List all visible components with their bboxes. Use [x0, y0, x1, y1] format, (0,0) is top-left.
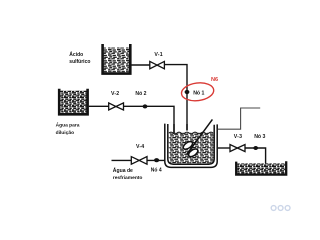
svg-text:N6: N6: [211, 77, 218, 83]
svg-text:Ácido: Ácido: [69, 51, 83, 58]
svg-text:Nó 4: Nó 4: [151, 168, 162, 174]
svg-text:resfriamento: resfriamento: [113, 175, 143, 181]
svg-text:V-2: V-2: [111, 91, 119, 97]
svg-text:V-4: V-4: [136, 144, 144, 150]
svg-text:Água para: Água para: [56, 122, 80, 129]
svg-text:Nó 3: Nó 3: [254, 134, 265, 140]
svg-text:Nó 2: Nó 2: [135, 91, 146, 97]
svg-text:V-3: V-3: [234, 134, 242, 140]
svg-text:Nó 1: Nó 1: [193, 90, 204, 96]
svg-text:sulfúrico: sulfúrico: [69, 59, 90, 65]
svg-text:V-1: V-1: [154, 52, 162, 58]
svg-text:diluição: diluição: [56, 130, 74, 136]
svg-text:Água de: Água de: [113, 167, 133, 174]
